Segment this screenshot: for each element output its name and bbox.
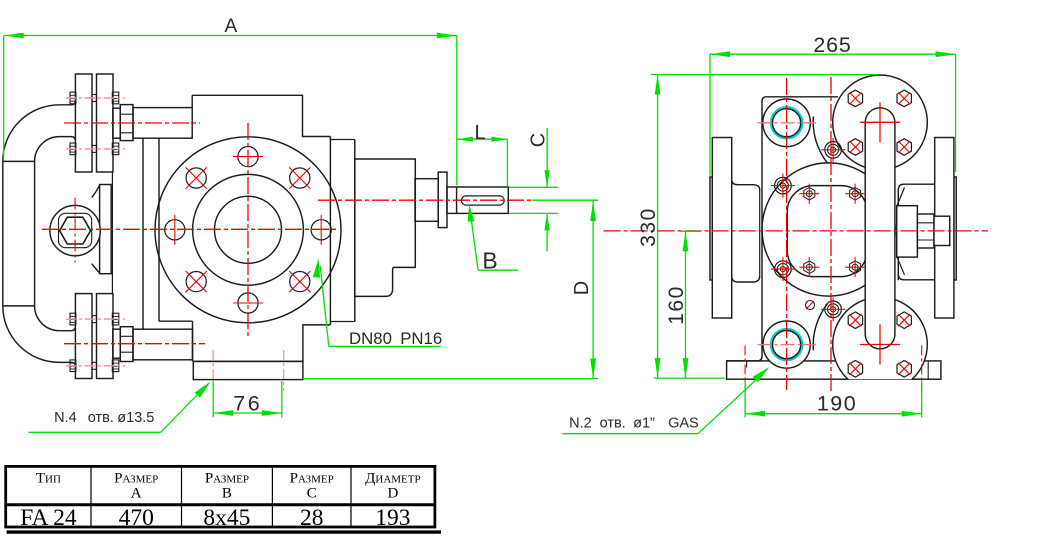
svg-text:B: B [222, 486, 232, 502]
svg-text:N.2: N.2 [569, 415, 592, 431]
svg-text:8x45: 8x45 [203, 505, 250, 531]
svg-text:PN16: PN16 [400, 329, 442, 348]
svg-text:28: 28 [300, 505, 324, 531]
svg-text:Размер: Размер [114, 470, 158, 486]
svg-text:A: A [131, 486, 142, 502]
svg-text:Тип: Тип [36, 470, 61, 486]
svg-text:C: C [307, 486, 317, 502]
svg-text:N.4: N.4 [54, 410, 77, 426]
svg-text:76: 76 [233, 392, 262, 416]
svg-text:Диаметр: Диаметр [365, 470, 420, 486]
svg-text:190: 190 [817, 392, 857, 416]
svg-text:470: 470 [119, 505, 154, 531]
svg-text:160: 160 [665, 285, 688, 325]
svg-text:ø1”: ø1” [633, 415, 655, 431]
svg-text:D: D [387, 486, 398, 502]
svg-text:330: 330 [637, 207, 660, 247]
svg-text:Размер: Размер [290, 470, 334, 486]
svg-text:ø13.5: ø13.5 [117, 410, 154, 426]
svg-text:C: C [528, 133, 550, 147]
svg-text:DN80: DN80 [349, 329, 392, 348]
svg-text:Размер: Размер [205, 470, 249, 486]
svg-text:193: 193 [375, 505, 410, 531]
svg-text:D: D [571, 281, 593, 295]
svg-text:B: B [482, 248, 497, 274]
svg-text:GAS: GAS [668, 415, 699, 431]
svg-text:отв.: отв. [88, 410, 114, 426]
svg-text:FA 24: FA 24 [20, 505, 77, 531]
svg-text:L: L [474, 122, 485, 144]
svg-text:A: A [224, 16, 237, 37]
svg-text:265: 265 [813, 33, 851, 57]
svg-text:отв.: отв. [600, 415, 626, 431]
